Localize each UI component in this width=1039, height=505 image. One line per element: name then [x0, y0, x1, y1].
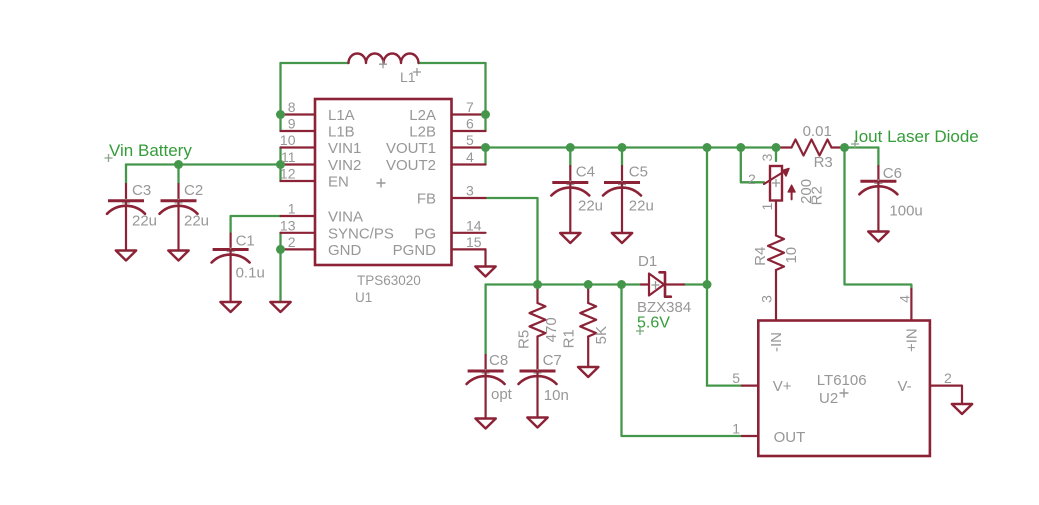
svg-text:R1: R1 [560, 329, 577, 348]
svg-text:VIN1: VIN1 [328, 140, 361, 157]
svg-text:+IN: +IN [904, 328, 921, 352]
svg-text:R3: R3 [814, 154, 833, 171]
svg-text:13: 13 [280, 217, 296, 233]
svg-text:2: 2 [944, 370, 952, 386]
svg-text:BZX384: BZX384 [637, 299, 691, 316]
svg-text:3: 3 [466, 183, 474, 199]
svg-text:470: 470 [543, 317, 560, 342]
svg-text:L2A: L2A [409, 107, 436, 124]
svg-text:22u: 22u [629, 197, 654, 214]
svg-text:1: 1 [759, 202, 775, 210]
svg-text:PGND: PGND [393, 242, 437, 259]
svg-text:2: 2 [748, 171, 756, 187]
svg-text:LT6106: LT6106 [817, 372, 867, 389]
svg-text:VOUT1: VOUT1 [386, 140, 436, 157]
svg-text:10: 10 [280, 132, 296, 148]
svg-text:1: 1 [288, 201, 296, 217]
svg-text:EN: EN [328, 174, 349, 191]
svg-text:22u: 22u [184, 213, 209, 230]
svg-text:U1: U1 [355, 290, 372, 305]
svg-text:C7: C7 [543, 352, 562, 369]
svg-text:3: 3 [759, 295, 775, 303]
svg-text:10n: 10n [544, 387, 569, 404]
svg-text:opt: opt [491, 386, 513, 403]
svg-text:1: 1 [732, 421, 740, 437]
svg-text:U2: U2 [819, 390, 838, 407]
svg-text:VIN2: VIN2 [328, 157, 361, 174]
svg-text:15: 15 [466, 234, 482, 250]
svg-text:C8: C8 [489, 352, 508, 369]
svg-text:R2: R2 [808, 186, 825, 205]
svg-text:0.01: 0.01 [803, 123, 832, 140]
svg-text:8: 8 [288, 99, 296, 115]
svg-text:FB: FB [417, 191, 436, 208]
svg-text:VOUT2: VOUT2 [386, 157, 436, 174]
svg-text:L1B: L1B [328, 124, 355, 141]
svg-text:C6: C6 [883, 165, 902, 182]
svg-text:R5: R5 [515, 330, 532, 349]
svg-text:V-: V- [898, 378, 912, 395]
svg-text:PG: PG [414, 225, 436, 242]
svg-text:L2B: L2B [409, 124, 436, 141]
svg-text:4: 4 [466, 149, 474, 165]
svg-text:C5: C5 [629, 163, 648, 180]
svg-text:14: 14 [466, 217, 482, 233]
svg-text:L1A: L1A [328, 107, 355, 124]
svg-text:C1: C1 [236, 233, 255, 250]
svg-text:12: 12 [280, 166, 296, 182]
svg-text:11: 11 [281, 149, 296, 165]
svg-text:R4: R4 [752, 247, 769, 266]
svg-text:C3: C3 [132, 182, 151, 199]
svg-text:7: 7 [466, 99, 474, 115]
svg-text:5: 5 [466, 132, 474, 148]
svg-text:OUT: OUT [774, 429, 806, 446]
svg-text:C2: C2 [184, 182, 203, 199]
svg-text:22u: 22u [132, 213, 157, 230]
svg-text:10: 10 [783, 247, 800, 264]
svg-text:0.1u: 0.1u [236, 265, 265, 282]
svg-text:3: 3 [759, 153, 775, 161]
svg-text:Iout Laser Diode: Iout Laser Diode [854, 127, 979, 146]
svg-text:2: 2 [288, 234, 296, 250]
svg-text:5.6V: 5.6V [637, 315, 670, 332]
svg-text:C4: C4 [576, 163, 595, 180]
svg-text:TPS63020: TPS63020 [357, 273, 421, 288]
svg-text:SYNC/PS: SYNC/PS [328, 225, 394, 242]
svg-text:6: 6 [466, 116, 474, 132]
svg-text:GND: GND [328, 242, 362, 259]
svg-text:Vin Battery: Vin Battery [109, 141, 192, 160]
svg-text:V+: V+ [773, 378, 792, 395]
svg-text:D1: D1 [638, 253, 657, 270]
svg-text:9: 9 [288, 116, 296, 132]
svg-text:100u: 100u [889, 203, 922, 220]
svg-text:-IN: -IN [768, 332, 785, 352]
svg-text:5K: 5K [593, 326, 610, 344]
svg-text:5: 5 [732, 370, 740, 386]
svg-text:4: 4 [897, 295, 913, 303]
svg-text:22u: 22u [578, 197, 603, 214]
svg-text:VINA: VINA [328, 209, 363, 226]
